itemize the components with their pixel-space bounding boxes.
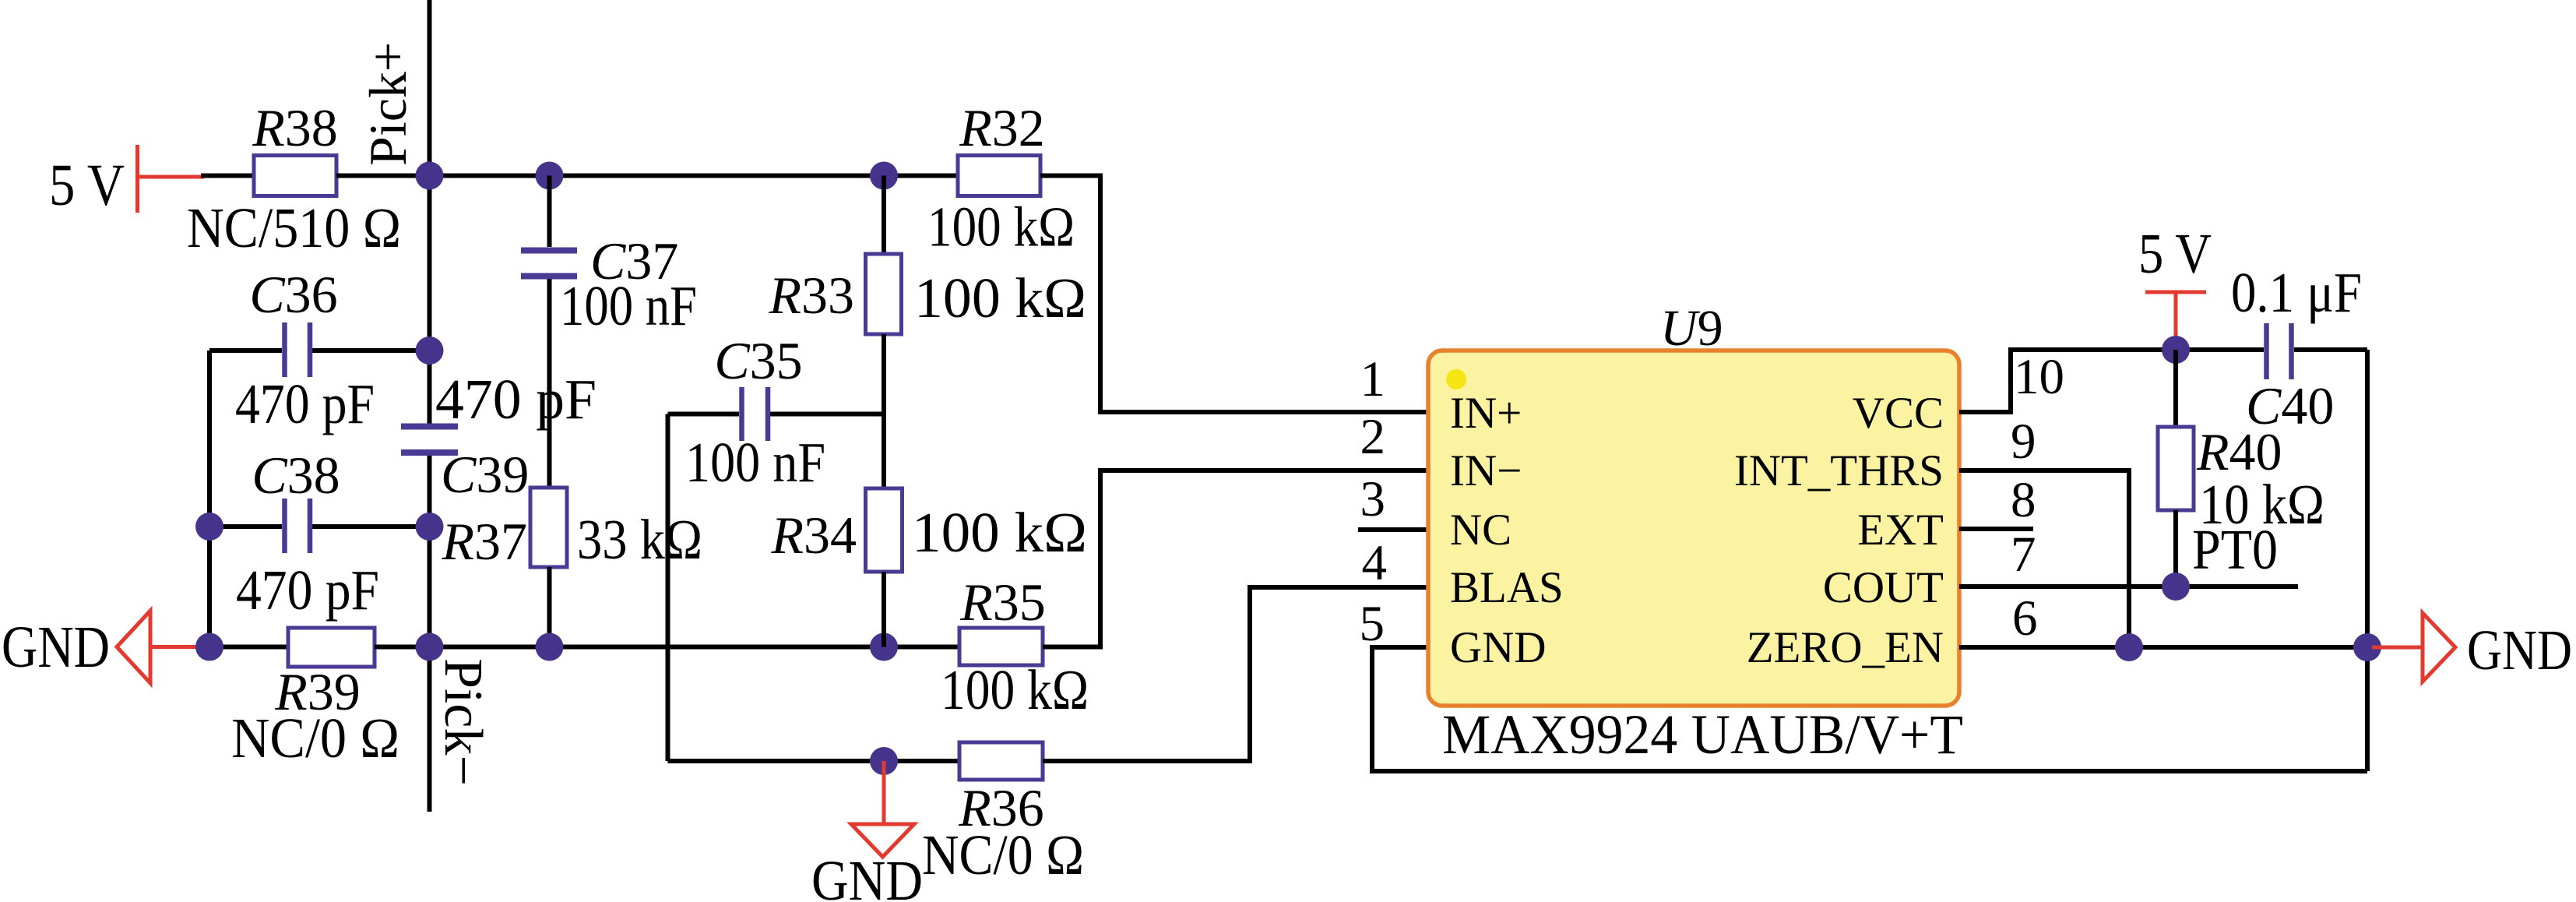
wire COUT pin7 / node PT0 xyxy=(1959,584,2298,589)
resistor R33 xyxy=(768,176,1086,489)
wire VCC pin10 xyxy=(1959,350,2264,412)
svg-text:PT0: PT0 xyxy=(2192,518,2278,581)
svg-text:R38: R38 xyxy=(252,98,338,157)
svg-text:C38: C38 xyxy=(252,446,340,505)
svg-text:GND: GND xyxy=(2,615,110,680)
svg-text:100 kΩ: 100 kΩ xyxy=(914,266,1086,329)
ground GND right xyxy=(2372,613,2572,682)
pin 8 stub xyxy=(1959,527,2033,531)
junction C38 at Pick line xyxy=(416,513,444,541)
svg-text:GND: GND xyxy=(1450,623,1547,672)
svg-text:Pick−: Pick− xyxy=(433,658,493,786)
svg-text:3: 3 xyxy=(1360,471,1386,527)
svg-text:EXT: EXT xyxy=(1857,506,1944,555)
resistor R37 xyxy=(441,488,702,647)
power 5V right symbol xyxy=(2138,222,2212,350)
ground GND bottom xyxy=(811,761,923,902)
svg-text:R32: R32 xyxy=(959,98,1045,157)
resistor R32 xyxy=(927,98,1075,259)
svg-text:100 kΩ: 100 kΩ xyxy=(927,196,1075,259)
svg-text:C35: C35 xyxy=(714,331,802,390)
junction top rail at Pick+ xyxy=(416,162,444,190)
svg-text:5 V: 5 V xyxy=(2138,222,2212,285)
svg-text:C36: C36 xyxy=(249,265,337,324)
node Pick+ vertical line xyxy=(428,0,432,424)
wire R36 to pin4 xyxy=(1043,587,1428,761)
junction pin9 to pin6 xyxy=(2115,633,2143,661)
capacitor C40 xyxy=(2231,261,2367,435)
svg-text:10: 10 xyxy=(2014,349,2064,405)
svg-text:COUT: COUT xyxy=(1823,563,1944,612)
junction C36 wire at Pick line xyxy=(416,336,444,365)
svg-text:IN−: IN− xyxy=(1450,446,1522,495)
svg-text:2: 2 xyxy=(1360,409,1386,465)
junction ZERO_EN at right vertical xyxy=(2353,633,2381,661)
svg-text:R37: R37 xyxy=(441,512,527,571)
svg-text:Pick+: Pick+ xyxy=(358,42,417,166)
svg-text:NC/0 Ω: NC/0 Ω xyxy=(231,706,399,770)
svg-text:4: 4 xyxy=(1362,535,1388,591)
svg-text:R35: R35 xyxy=(959,573,1046,632)
wire R35 to pin2 xyxy=(1043,470,1428,647)
svg-text:INT_THRS: INT_THRS xyxy=(1734,446,1944,495)
svg-text:NC: NC xyxy=(1450,506,1511,555)
svg-text:6: 6 xyxy=(2012,590,2038,647)
svg-text:VCC: VCC xyxy=(1853,389,1944,438)
wire bottom rail GND row xyxy=(204,645,288,650)
resistor R38 xyxy=(187,98,401,259)
capacitor C35 xyxy=(668,331,885,494)
op-amp U9 MAX9924 xyxy=(1428,300,1963,766)
svg-text:5: 5 xyxy=(1360,596,1385,652)
resistor R36 xyxy=(668,742,1085,886)
svg-text:R34: R34 xyxy=(770,506,857,565)
junction top rail at R33/R32 xyxy=(870,162,898,190)
svg-text:470 pF: 470 pF xyxy=(235,372,375,435)
svg-text:C39: C39 xyxy=(441,445,529,504)
capacitor C39 (on Pick line) xyxy=(401,368,596,504)
capacitor C37 xyxy=(521,176,697,488)
svg-text:7: 7 xyxy=(2011,527,2036,583)
capacitor C36 xyxy=(209,265,430,435)
resistor R39 xyxy=(231,628,399,770)
svg-text:GND: GND xyxy=(2467,618,2572,682)
svg-text:100 kΩ: 100 kΩ xyxy=(941,658,1089,721)
junction GND rail at R34/R35 xyxy=(870,633,898,661)
junction GND rail at Pick line xyxy=(416,633,444,661)
junction R36 row xyxy=(870,747,898,775)
resistor R40 xyxy=(2158,350,2324,587)
wire C35 left vertical down to R36 row xyxy=(666,414,670,762)
wire R39 to R35 row xyxy=(375,645,959,650)
wire 5V to R38 xyxy=(201,174,254,178)
wire INT_THRS pin9 xyxy=(1959,470,2129,647)
pin 5 wire / bottom rail xyxy=(1372,647,2367,771)
svg-text:BLAS: BLAS xyxy=(1450,563,1564,612)
wire ZERO_EN pin6 xyxy=(1959,645,2367,650)
svg-text:1: 1 xyxy=(1360,351,1386,407)
svg-text:NC/0 Ω: NC/0 Ω xyxy=(922,823,1084,886)
svg-text:33 kΩ: 33 kΩ xyxy=(577,508,702,571)
pin 3 stub xyxy=(1358,527,1428,532)
svg-text:U9: U9 xyxy=(1660,300,1723,357)
junction C38 at left vertical xyxy=(195,513,223,541)
capacitor C38 xyxy=(209,446,430,622)
svg-text:100 nF: 100 nF xyxy=(685,431,825,494)
svg-text:100 kΩ: 100 kΩ xyxy=(912,501,1087,564)
svg-text:470 pF: 470 pF xyxy=(435,368,596,431)
junction GND rail at R37 xyxy=(536,633,564,661)
svg-text:IN+: IN+ xyxy=(1450,389,1522,438)
svg-text:MAX9924 UAUB/V+T: MAX9924 UAUB/V+T xyxy=(1442,703,1963,766)
node Pick- vertical line xyxy=(428,455,432,812)
svg-text:R33: R33 xyxy=(768,266,854,325)
svg-text:9: 9 xyxy=(2011,414,2036,470)
svg-text:5 V: 5 V xyxy=(49,153,125,218)
svg-text:GND: GND xyxy=(811,849,923,902)
junction GND rail at left vertical xyxy=(195,633,223,661)
junction R40 at COUT xyxy=(2162,573,2190,601)
svg-text:NC/510 Ω: NC/510 Ω xyxy=(187,196,401,259)
power 5V left symbol xyxy=(49,145,204,218)
svg-text:100 nF: 100 nF xyxy=(560,274,697,337)
wire R38 to R32 (top rail) xyxy=(336,174,958,178)
ground GND left xyxy=(2,611,206,683)
svg-text:470 pF: 470 pF xyxy=(236,558,379,622)
resistor R35 xyxy=(941,573,1089,721)
wire R32 to pin1 xyxy=(1040,176,1428,413)
svg-text:0.1 μF: 0.1 μF xyxy=(2231,261,2362,324)
junction 5V at top rail xyxy=(2162,336,2190,364)
svg-text:ZERO_EN: ZERO_EN xyxy=(1747,623,1944,672)
svg-text:8: 8 xyxy=(2011,472,2036,528)
junction top rail at C37 branch xyxy=(536,162,564,190)
wire C40 right vertical xyxy=(2365,350,2370,771)
resistor R34 xyxy=(770,488,1087,647)
wire left vertical C36-C38-GND xyxy=(207,351,212,647)
